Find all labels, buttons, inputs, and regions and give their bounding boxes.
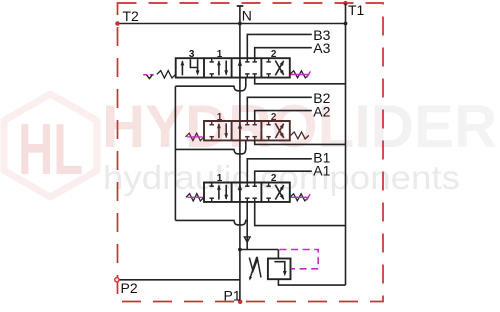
svg-text:T1: T1 — [348, 2, 365, 18]
wire tank gallery left — [174, 86, 176, 220]
valve U1 position 2 (cross) symbols — [266, 58, 284, 77]
label position 1 (U3) — [217, 173, 223, 184]
valve U1 body — [176, 58, 290, 77]
valve U2 position 2 (cross) symbols — [266, 121, 284, 140]
label position 2 (U3) — [271, 173, 277, 184]
wire bypass P1-N line — [239, 24, 241, 302]
valve U1 position 3 (float) symbols — [181, 59, 200, 75]
svg-text:2: 2 — [271, 49, 277, 60]
label P1 — [224, 288, 241, 304]
label A2 — [313, 104, 330, 120]
node N cap — [237, 6, 244, 24]
junction P — [238, 248, 242, 252]
relief pilot line (dashed) — [280, 250, 319, 269]
wire gallery jump 3 — [175, 220, 247, 225]
spring U3 right — [290, 194, 309, 201]
spring U2 right — [291, 132, 309, 139]
enclosure boundary (dashed) — [118, 3, 384, 302]
wire T2-T1 top tank line — [118, 23, 346, 25]
label B3 — [313, 27, 330, 43]
svg-text:1: 1 — [217, 173, 223, 184]
label position 2 (U2) — [271, 112, 277, 123]
svg-text:N: N — [242, 8, 252, 24]
pilot lead U2 left — [187, 136, 203, 138]
label position 2 (U1) — [271, 49, 277, 60]
svg-text:1: 1 — [217, 49, 223, 60]
spring U2 left — [186, 133, 205, 140]
svg-text:2: 2 — [271, 173, 277, 184]
wire gallery jump 2 — [175, 141, 245, 155]
svg-text:A1: A1 — [313, 163, 330, 179]
valve U3 position 1 symbols — [210, 183, 229, 202]
node T2 marker — [115, 21, 120, 26]
wire U1 tank connector — [255, 78, 346, 84]
valve U1 position 1 symbols — [210, 58, 229, 77]
label position 1 (U1) — [217, 49, 223, 60]
svg-text:P1: P1 — [224, 288, 241, 304]
svg-text:3: 3 — [189, 49, 195, 60]
junction N — [238, 22, 242, 26]
svg-text:1: 1 — [217, 112, 223, 123]
svg-text:HYDROLIDER: HYDROLIDER — [102, 93, 497, 160]
pilot lead U3 right — [291, 194, 311, 200]
pilot lead U3 left — [188, 196, 204, 198]
spring U1 right — [290, 71, 309, 78]
wire P junction to relief — [240, 250, 279, 259]
node P2 marker — [115, 278, 119, 282]
wire gallery jump 1 — [175, 78, 245, 91]
pilot lead U1 right — [291, 71, 311, 77]
relief valve RV1 body — [268, 259, 291, 280]
wire check line — [246, 202, 248, 250]
svg-text:P2: P2 — [121, 280, 138, 296]
valve U3 neutral bypass symbols — [238, 183, 257, 202]
spring U1 left — [157, 71, 176, 78]
valve U2 body — [204, 121, 290, 140]
wire port B3 — [247, 34, 311, 58]
wire port A3 — [255, 48, 312, 59]
wire port B1 — [247, 159, 311, 183]
valve U3 position 2 (cross) symbols — [266, 183, 284, 202]
node P1 marker — [238, 300, 243, 305]
label A1 — [313, 163, 330, 179]
label T2 — [123, 8, 140, 24]
wire port A1 — [255, 171, 312, 182]
valve U1 neutral bypass symbols — [238, 58, 257, 77]
wire relief to tank — [278, 279, 345, 285]
label position 3 — [189, 49, 195, 60]
wire T1 return line — [345, 3, 347, 285]
wire port B2 — [247, 97, 311, 121]
node T1 marker — [343, 1, 348, 6]
label B2 — [313, 90, 330, 106]
valve U2 neutral bypass symbols — [238, 121, 257, 140]
valve U3 body — [204, 183, 290, 202]
label A3 — [313, 40, 330, 56]
svg-text:A3: A3 — [313, 40, 330, 56]
svg-text:A2: A2 — [313, 104, 330, 120]
flow arrow (open) — [244, 237, 250, 242]
relief valve RV1 spring — [249, 257, 261, 281]
wire U2 tank connector — [255, 140, 346, 144]
label T1 — [348, 2, 365, 18]
spring U3 left — [186, 194, 204, 201]
label B1 — [313, 150, 330, 166]
pilot lead U1 left — [143, 75, 156, 79]
junction T1 top — [344, 22, 348, 26]
wire port A2 — [255, 111, 312, 121]
valve U2 position 1 symbols — [210, 121, 229, 140]
svg-text:T2: T2 — [123, 8, 140, 24]
relief valve RV1 arrow — [274, 262, 286, 277]
label position 1 (U2) — [217, 112, 223, 123]
label N — [242, 8, 252, 24]
svg-text:2: 2 — [271, 112, 277, 123]
wire P2 line — [117, 279, 240, 281]
label P2 — [121, 280, 138, 296]
wire U3 tank connector — [255, 202, 346, 226]
svg-text:HL: HL — [18, 110, 83, 190]
